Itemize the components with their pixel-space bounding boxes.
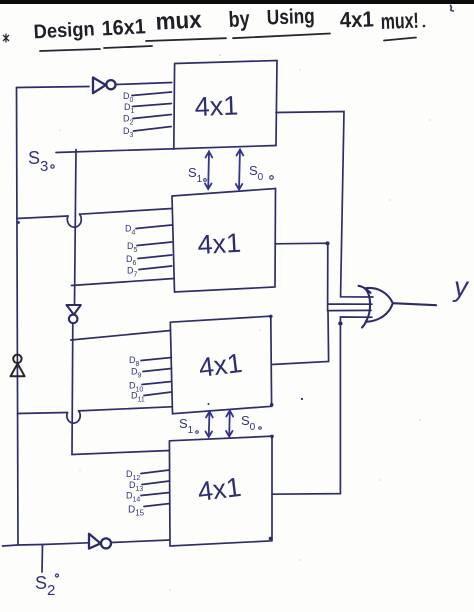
dot above S1 bottom arrow [208,403,210,405]
title underlines [40,34,416,52]
inverter G4 bottom (triangle+bubble) [89,534,111,549]
svg-text:4x1: 4x1 [194,90,239,122]
arrow S1 top [205,152,212,190]
box3 input D8 [141,358,172,361]
rail M turn to box4 left [72,451,170,455]
box4 input D14 [141,493,170,496]
box2 input D6 [138,255,172,259]
S3 wire + box1 bottom edge [56,146,276,153]
box1 input D2 [133,115,171,119]
period after title [423,25,426,28]
svg-text:Using: Using [266,5,315,30]
dot box3 bottom-right [270,403,274,407]
svg-text:16x1: 16x1 [101,15,146,40]
dot box3 top-right [269,315,273,319]
dot above box3 bottom-right [301,398,303,400]
bottom inverter wire to box4 [112,540,170,543]
inverter U1 wire to box1 [116,83,172,85]
box1 input D0 [132,92,172,96]
svg-text:Design: Design [33,18,95,43]
stray star mark left margin [3,34,9,43]
mux U2 box1 [174,61,277,150]
wire rail to box3 (left part before hop) [18,413,68,414]
hop over rail M (top) [67,214,81,227]
bottom wire S2 to inverter [3,543,89,546]
wire rail M to box2 bottom-left [72,279,175,286]
S2 stub [41,545,44,573]
box2 input D5 [137,242,172,246]
svg-text:y: y [452,271,470,302]
OR output wire [393,303,436,305]
title group (black pen) [33,5,419,44]
box2 output wire [275,243,372,311]
labels (navy ink) [28,91,273,599]
box3 input D10 [142,382,172,385]
wire hop to box3 left [79,407,171,411]
rail S2' left vertical [17,88,19,545]
svg-text:by: by [228,6,251,32]
arrow S0 bottom [226,411,233,437]
svg-text:4x1: 4x1 [197,348,244,383]
S1/S0 arrows top pair [205,150,243,438]
faint paper speckles [59,54,431,591]
arrow S1 bottom [206,412,213,438]
svg-text:mux: mux [155,6,203,35]
rail M (S3 line) upper segment [75,150,77,304]
mux U3 box2 [172,189,276,293]
wire rail to box2 (left part before hop) [17,216,68,219]
dot box4 bottom-right [269,537,273,541]
scanner black strip top [0,0,474,4]
box2 input D7 [139,266,172,270]
box4 output wire [272,317,372,494]
svg-text:mux!: mux! [380,8,419,34]
wire rail M to box3 top-left [71,331,171,341]
hop over rail M (bottom) [67,411,80,423]
stray mark top right [450,5,454,11]
box2 input D4 [136,225,172,229]
dot box2 output corner [326,241,330,245]
box4 input D15 [144,504,170,507]
box1 output wire [276,112,373,298]
svg-text:4x1: 4x1 [196,472,243,507]
wire hop to box2 top-left [80,209,173,215]
box1 input D1 [133,104,172,107]
arrow S0 top [236,150,244,190]
box3 input D9 [143,369,172,372]
dot rail L junction [17,221,20,224]
box4 input D12 [141,470,170,474]
top enable wire to inverter [17,87,90,88]
inverter G3 on rail L (pointing up) [11,355,25,377]
dot box4 top-right [270,435,274,439]
mux U4 box3 [170,316,271,414]
box3 output wire [272,310,371,364]
box1 input D3 [134,127,172,132]
dot OR lower junction [338,321,342,325]
box4 input D13 [142,481,170,485]
svg-text:4x1: 4x1 [197,228,242,260]
rail M lower segment below inverter [71,323,74,455]
inverter G2 on rail M (pointing down) [67,305,81,323]
inverter G1 top (triangle+bubble) [93,78,116,94]
OR gate U6 [359,286,437,328]
svg-text:4x1: 4x1 [339,6,374,32]
mux U5 box4 [169,436,272,546]
box3 input D11 [144,392,171,396]
